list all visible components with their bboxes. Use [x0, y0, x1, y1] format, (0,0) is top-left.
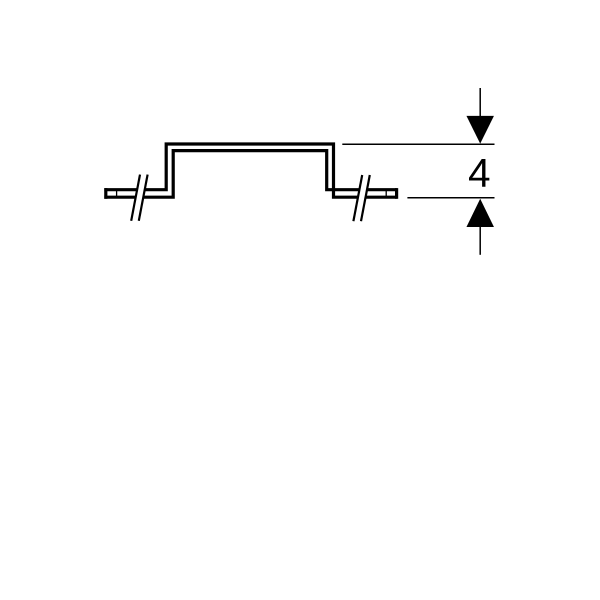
- right end cap: [395, 188, 398, 199]
- profile inner line, right stub top edge: [367, 188, 397, 191]
- right material tick: [385, 190, 387, 198]
- profile inner polyline B (bottom edge, up, inner top, down, top edge of right leg): [143, 151, 359, 198]
- lower extension line: [407, 197, 494, 199]
- profile outer polyline A (top edge, up, top of hat, down, bottom edge of right leg): [145, 144, 358, 197]
- left break mark (double slash): [131, 175, 140, 221]
- profile inner line, left stub bottom edge: [104, 196, 135, 199]
- right break mark (double slash): [353, 175, 362, 221]
- lower dimension leader line: [479, 227, 481, 255]
- left material tick: [116, 190, 118, 198]
- profile outer line, right stub bottom edge: [366, 196, 397, 199]
- dimension text 4: [469, 159, 489, 187]
- upper extension line: [342, 143, 494, 145]
- lower arrowhead pointing up: [466, 199, 494, 227]
- profile outer line, left stub top edge: [104, 188, 137, 191]
- left end cap: [104, 188, 107, 199]
- upper dimension leader line: [479, 88, 481, 117]
- upper arrowhead pointing down: [466, 116, 494, 144]
